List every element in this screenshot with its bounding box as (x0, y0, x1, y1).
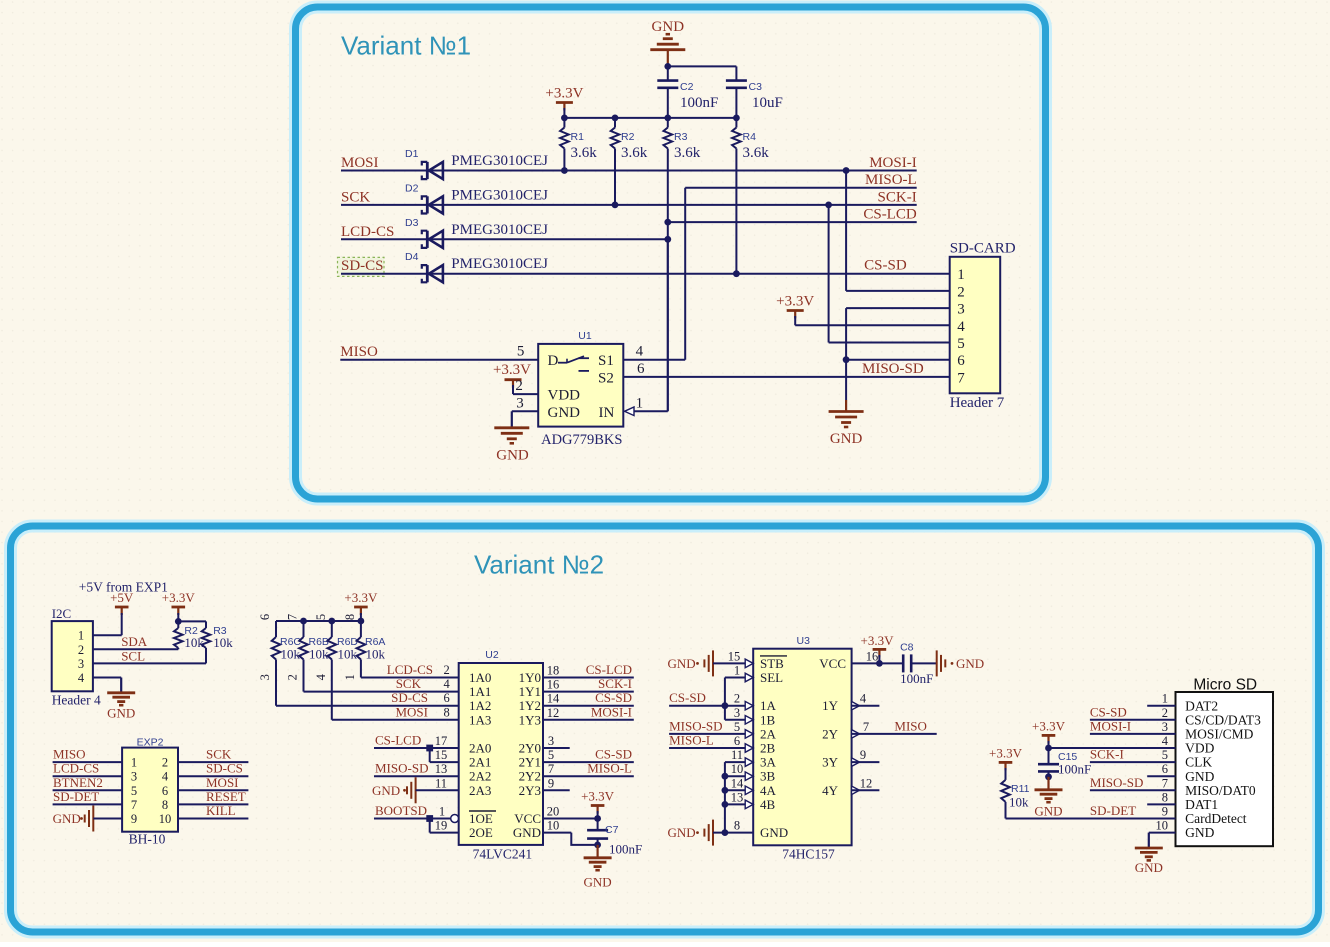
junction (561, 115, 568, 122)
svg-text:7: 7 (131, 798, 137, 812)
svg-text:VDD: VDD (1185, 741, 1214, 756)
power +3.3V (R6 bank) (354, 606, 368, 609)
svg-text:R3: R3 (674, 131, 688, 143)
svg-text:16: 16 (547, 678, 560, 692)
svg-text:VDD: VDD (548, 388, 581, 404)
svg-text:11: 11 (435, 776, 447, 790)
svg-text:2Y3: 2Y3 (519, 783, 541, 798)
svg-text:2A2: 2A2 (469, 769, 491, 784)
svg-text:MISO-L: MISO-L (587, 761, 632, 776)
svg-text:5: 5 (1162, 748, 1168, 762)
svg-text:CS-LCD: CS-LCD (863, 207, 917, 223)
ground GND (C7) (584, 856, 612, 859)
svg-text:10k: 10k (366, 647, 386, 662)
wire EXP2 pin7 (53, 803, 123, 805)
svg-text:+3.3V: +3.3V (545, 86, 583, 102)
svg-text:LCD-CS: LCD-CS (53, 761, 99, 776)
svg-text:10k: 10k (309, 647, 329, 662)
resistor R6A 10k (360, 621, 362, 637)
svg-text:10k: 10k (338, 647, 358, 662)
svg-text:+3.3V: +3.3V (344, 590, 378, 605)
svg-text:MISO: MISO (894, 718, 927, 733)
svg-text:10: 10 (1156, 819, 1169, 833)
wire SD-CS row to SD-CARD pin1 (341, 273, 950, 275)
svg-text:D4: D4 (405, 251, 419, 263)
wire U2 pin11 (416, 789, 459, 791)
svg-text:1Y3: 1Y3 (519, 712, 541, 727)
junction (1045, 745, 1052, 752)
svg-text:MOSI: MOSI (341, 155, 379, 171)
svg-text:3: 3 (734, 706, 740, 720)
op-amp U1 ADG779BKS body (538, 344, 623, 427)
junction (426, 815, 433, 822)
junction (594, 842, 601, 849)
svg-text:2B: 2B (760, 741, 776, 756)
diode D4 (429, 265, 443, 282)
wire EXP2 pin2 (178, 761, 248, 763)
svg-text:GND: GND (513, 825, 541, 840)
wire SCK vertical to SD pin5 (828, 205, 830, 343)
svg-text:GND: GND (584, 875, 612, 890)
svg-text:GND: GND (107, 706, 135, 721)
junction (664, 219, 671, 226)
diode D1 (429, 162, 443, 179)
svg-text:SD-CS: SD-CS (341, 258, 384, 274)
svg-text:15: 15 (435, 748, 448, 762)
wire U2 pin9 stub (543, 789, 570, 791)
svg-text:MISO-SD: MISO-SD (1090, 775, 1143, 790)
svg-text:PMEG3010CEJ: PMEG3010CEJ (451, 153, 548, 169)
wire SD pin3 gnd branch (846, 307, 950, 309)
svg-text:3: 3 (548, 734, 554, 748)
svg-text:6: 6 (258, 614, 272, 620)
resistor R11 10k (1005, 768, 1007, 780)
svg-text:1Y: 1Y (822, 698, 839, 713)
wire MISO-L row (685, 187, 917, 189)
wire SD pin6 branch (846, 359, 950, 361)
svg-text:LCD-CS: LCD-CS (387, 662, 433, 677)
svg-text:CardDetect: CardDetect (1185, 811, 1247, 826)
svg-text:+3.3V: +3.3V (861, 633, 895, 648)
wire U2 pin16 SCK-I (543, 691, 634, 693)
svg-text:U1: U1 (578, 330, 592, 342)
svg-text:CS-SD: CS-SD (595, 690, 632, 705)
svg-text:S2: S2 (598, 370, 614, 386)
svg-text:U3: U3 (797, 635, 811, 647)
wire U3 pin8 GND (713, 832, 753, 834)
wire LCD-CS row (341, 238, 668, 240)
wire +3.3V rail (564, 117, 736, 119)
svg-text:9: 9 (860, 748, 866, 762)
wire +3.3V to SD pin4 (794, 316, 796, 325)
svg-text:+3.3V: +3.3V (1032, 718, 1066, 733)
svg-text:9: 9 (131, 812, 137, 826)
svg-text:10: 10 (547, 819, 560, 833)
svg-text:GND: GND (1185, 825, 1214, 840)
wire EXP2 pin9 (93, 818, 122, 820)
wire EXP2 pin5 (53, 789, 123, 791)
bubble U2 pin1 (451, 815, 459, 823)
wire U3 2Y MISO (852, 733, 937, 735)
wire EXP2 pin1 (53, 761, 123, 763)
svg-text:3A: 3A (760, 755, 777, 770)
svg-text:100nF: 100nF (1058, 762, 1091, 777)
svg-text:MOSI/CMD: MOSI/CMD (1185, 727, 1254, 742)
svg-text:MISO: MISO (53, 747, 86, 762)
svg-text:S1: S1 (598, 353, 614, 369)
capacitor C2 (667, 66, 669, 80)
svg-text:BH-10: BH-10 (129, 832, 166, 847)
svg-text:BOOTSD: BOOTSD (375, 803, 427, 818)
svg-text:C8: C8 (900, 642, 914, 654)
svg-text:1A1: 1A1 (469, 684, 491, 699)
wire MISO-SD to U2 pin13 (374, 775, 459, 777)
capacitor C8 (902, 654, 905, 672)
resistor R6D 10k (331, 621, 333, 637)
svg-text:2: 2 (444, 663, 450, 677)
svg-text:8: 8 (162, 798, 168, 812)
svg-text:STB: STB (760, 656, 784, 671)
svg-text:2A3: 2A3 (469, 783, 491, 798)
resistor R2 10k (177, 621, 179, 628)
svg-text:3: 3 (258, 674, 272, 680)
resistor R2 (614, 118, 616, 128)
wire CS-SD to uSD pin2 (1090, 719, 1176, 721)
wire U2 pin5 CS-SD (543, 761, 634, 763)
svg-text:2: 2 (162, 756, 168, 770)
wire +3.3V stem (563, 108, 565, 118)
svg-text:4Y: 4Y (822, 783, 839, 798)
svg-text:100nF: 100nF (900, 671, 933, 686)
svg-text:1: 1 (1162, 692, 1168, 706)
svg-text:1OE: 1OE (469, 811, 493, 826)
power +3.3V (U3) (873, 648, 887, 651)
svg-text:3.6k: 3.6k (674, 145, 701, 161)
input arrow IN (625, 407, 635, 416)
svg-text:2: 2 (1162, 706, 1168, 720)
wire MISO-L to U3 2B (669, 747, 745, 749)
svg-text:D2: D2 (405, 182, 419, 194)
wire uSD pin8 stub (1147, 803, 1175, 805)
svg-text:1: 1 (131, 756, 137, 770)
wire U3 pin16 VCC (852, 662, 904, 664)
svg-text:1A0: 1A0 (469, 670, 491, 685)
svg-text:R2: R2 (621, 131, 635, 143)
svg-text:4B: 4B (760, 797, 776, 812)
svg-text:3: 3 (131, 770, 137, 784)
svg-text:10k: 10k (213, 635, 233, 650)
power +3.3V (top box) (556, 101, 573, 104)
wire U3 4Y stub (852, 789, 880, 791)
svg-text:4: 4 (78, 671, 85, 685)
svg-text:5: 5 (548, 748, 554, 762)
svg-text:R11: R11 (1011, 783, 1030, 795)
svg-text:10k: 10k (1009, 795, 1029, 810)
wire VDD to uSD pin4 (1049, 747, 1176, 749)
wire U2 pin10 GND (543, 832, 571, 834)
ground GND (I2C) (107, 691, 135, 694)
wire R6B to U2 pin4 (304, 691, 459, 693)
wire gnd stem (C15) (1047, 777, 1049, 790)
wire U2 pin14 CS-SD (543, 705, 634, 707)
svg-text:3B: 3B (760, 769, 776, 784)
svg-text:+3.3V: +3.3V (581, 789, 615, 804)
svg-text:4: 4 (162, 770, 169, 784)
svg-text:MOSI-I: MOSI-I (591, 704, 632, 719)
svg-text:D: D (548, 353, 559, 369)
svg-text:SCK-I: SCK-I (878, 189, 917, 205)
svg-text:SCK: SCK (206, 747, 232, 762)
svg-text:10uF: 10uF (752, 95, 783, 111)
resistor R6C 10k (275, 621, 277, 637)
wire U2 pin7 MISO-L (543, 775, 634, 777)
svg-text:4: 4 (444, 677, 451, 691)
svg-text:SCK-I: SCK-I (1090, 747, 1124, 762)
wire EXP2 pin4 (178, 775, 248, 777)
wire SCL (93, 662, 206, 664)
wire U2 pin20 VCC (543, 818, 598, 820)
wire VDD (512, 385, 514, 394)
buffer U2 74LVC241 body (459, 663, 543, 845)
svg-text:6: 6 (1162, 762, 1168, 776)
svg-text:6: 6 (444, 691, 450, 705)
wire cap top rail (668, 65, 737, 67)
svg-text:2: 2 (286, 674, 300, 680)
junction (175, 618, 182, 625)
svg-text:2A: 2A (760, 726, 777, 741)
svg-text:KILL: KILL (206, 803, 236, 818)
junction (843, 356, 850, 363)
svg-text:SD-DET: SD-DET (53, 789, 99, 804)
junction (722, 702, 729, 709)
svg-text:14: 14 (731, 776, 744, 790)
svg-text:7: 7 (863, 720, 869, 734)
junction (300, 618, 307, 625)
svg-text:7: 7 (957, 370, 965, 386)
svg-text:2: 2 (734, 692, 740, 706)
svg-text:1: 1 (78, 629, 84, 643)
svg-text:16: 16 (866, 649, 879, 663)
capacitor C3 (735, 66, 737, 80)
svg-text:GND: GND (1185, 769, 1214, 784)
svg-text:3.6k: 3.6k (743, 145, 770, 161)
svg-text:3.6k: 3.6k (571, 145, 598, 161)
wire SCK-I to uSD pin5 (1090, 761, 1176, 763)
wire R6D to U2 pin8 (332, 719, 459, 721)
svg-text:BTNEN2: BTNEN2 (53, 775, 103, 790)
svg-text:D1: D1 (405, 148, 419, 160)
power +3.3V (C7) (591, 804, 605, 807)
svg-text:12: 12 (860, 776, 873, 790)
wire U2 pin3 stub (543, 747, 570, 749)
wire SD-DET to uSD pin9 (1006, 818, 1176, 820)
svg-text:CS-SD: CS-SD (1090, 704, 1127, 719)
svg-text:15: 15 (728, 649, 741, 663)
wire branch to pin15 (429, 748, 431, 762)
power +5V (115, 606, 129, 609)
svg-text:14: 14 (547, 692, 560, 706)
svg-text:C7: C7 (605, 824, 619, 836)
resistor R3 (667, 118, 669, 128)
svg-text:7: 7 (1162, 776, 1168, 790)
wire MISO-L vertical to U1 S1 (684, 188, 686, 360)
svg-text:9: 9 (548, 776, 554, 790)
svg-text:2Y1: 2Y1 (519, 755, 541, 770)
svg-text:6: 6 (957, 353, 965, 369)
power +3.3V (SD card) (787, 309, 804, 312)
svg-text:SCK: SCK (341, 189, 370, 205)
svg-text:DAT2: DAT2 (1185, 698, 1218, 713)
svg-text:MISO: MISO (340, 344, 378, 360)
wire EXP2 pin10 (178, 818, 248, 820)
svg-text:RESET: RESET (206, 789, 246, 804)
svg-text:3: 3 (957, 302, 965, 318)
svg-text:1B: 1B (760, 712, 776, 727)
svg-text:PMEG3010CEJ: PMEG3010CEJ (451, 256, 548, 272)
svg-text:3: 3 (78, 657, 84, 671)
svg-text:Header 7: Header 7 (950, 395, 1005, 411)
svg-text:ADG779BKS: ADG779BKS (541, 432, 622, 448)
svg-text:GND: GND (668, 825, 696, 840)
svg-text:PMEG3010CEJ: PMEG3010CEJ (451, 187, 548, 203)
resistor R4 (735, 118, 737, 128)
svg-text:10k: 10k (281, 647, 301, 662)
wire gnd bus vertical (724, 762, 726, 833)
svg-text:GND: GND (548, 405, 581, 421)
capacitor C7 (597, 819, 599, 831)
svg-text:+3.3V: +3.3V (989, 745, 1023, 760)
svg-text:20: 20 (547, 805, 560, 819)
wire MISO-SD to U3 2A (669, 733, 745, 735)
junction (426, 745, 433, 752)
input arrows U3 left (745, 659, 753, 668)
svg-text:6: 6 (637, 361, 645, 377)
svg-text:CS-SD: CS-SD (864, 258, 907, 274)
svg-text:1A: 1A (760, 698, 777, 713)
svg-text:MISO-L: MISO-L (865, 172, 917, 188)
svg-text:GND: GND (668, 656, 696, 671)
power +3.3V (C15) (1042, 734, 1056, 737)
svg-text:1Y1: 1Y1 (519, 684, 541, 699)
svg-text:4: 4 (860, 692, 867, 706)
svg-text:8: 8 (734, 819, 740, 833)
wire C8 to gnd (911, 662, 937, 664)
svg-text:8: 8 (444, 705, 450, 719)
svg-text:2Y2: 2Y2 (519, 769, 541, 784)
svg-text:6: 6 (734, 734, 740, 748)
svg-text:DAT1: DAT1 (1185, 797, 1218, 812)
svg-text:1Y2: 1Y2 (519, 698, 541, 713)
svg-text:10: 10 (731, 762, 744, 776)
svg-text:1: 1 (343, 674, 357, 680)
svg-text:3: 3 (516, 395, 524, 411)
wire MISO-SD row U1 S2 to SD pin7 (623, 376, 949, 378)
svg-text:GND: GND (53, 811, 81, 826)
wire U3 1Y stub (852, 705, 880, 707)
svg-text:74LVC241: 74LVC241 (473, 847, 533, 862)
svg-text:D3: D3 (405, 217, 419, 229)
wire U3 pin1 SEL (725, 677, 746, 679)
resistor R6B 10k (303, 621, 305, 637)
svg-text:SCL: SCL (121, 648, 145, 663)
svg-text:LCD-CS: LCD-CS (341, 224, 394, 240)
svg-text:GND: GND (1135, 860, 1163, 875)
wire +5V to I2C pin1 (121, 613, 123, 635)
junction (1045, 773, 1052, 780)
svg-text:1: 1 (439, 805, 445, 819)
wire pullup rail (178, 620, 206, 622)
wire BOOTSD to U2 pin1 (374, 818, 451, 820)
svg-text:2Y: 2Y (822, 726, 839, 741)
switch symbol inside U1 (558, 362, 567, 364)
wire R6 rail (276, 620, 361, 622)
wire R6C to U2 pin6 (276, 705, 459, 707)
svg-text:IN: IN (599, 405, 615, 421)
svg-text:2: 2 (515, 378, 523, 394)
svg-text:13: 13 (435, 762, 448, 776)
svg-text:Variant №2: Variant №2 (474, 550, 604, 580)
svg-text:13: 13 (731, 790, 744, 804)
frame box Variant 2 (11, 526, 1319, 932)
junction (722, 773, 729, 780)
junction (733, 270, 740, 277)
diode D3 (429, 231, 443, 248)
svg-text:SD-DET: SD-DET (1090, 803, 1136, 818)
junction (664, 236, 671, 243)
diode D2 (429, 196, 443, 213)
svg-text:CS-LCD: CS-LCD (375, 733, 421, 748)
wire GND stem (667, 50, 669, 67)
node SD-CS (338, 257, 385, 276)
wire EXP2 pin8 (178, 803, 248, 805)
wire U1 IN pin1 (634, 410, 668, 412)
wire I2C pin4 to gnd (93, 677, 121, 679)
svg-text:1: 1 (734, 664, 740, 678)
svg-text:VCC: VCC (514, 811, 541, 826)
svg-text:SCK-I: SCK-I (598, 676, 632, 691)
svg-text:3.6k: 3.6k (621, 145, 648, 161)
svg-text:100nF: 100nF (609, 842, 642, 857)
junction (594, 815, 601, 822)
svg-text:VCC: VCC (819, 656, 846, 671)
svg-text:11: 11 (731, 748, 743, 762)
svg-text:CS-SD: CS-SD (595, 747, 632, 762)
wire gnd stem (845, 400, 847, 412)
svg-text:19: 19 (435, 819, 448, 833)
svg-text:1: 1 (957, 267, 965, 283)
wire U3 3A (725, 761, 746, 763)
power +3.3V (I2C pullups) (172, 606, 186, 609)
wire R6A to U2 pin2 (361, 677, 459, 679)
wire MISO-SD to uSD pin7 (1090, 789, 1176, 791)
svg-text:GND: GND (496, 448, 529, 464)
svg-text:MISO-SD: MISO-SD (375, 761, 428, 776)
wire U2 pin18 CS-LCD (543, 677, 634, 679)
wire uSD pin10 gnd (1149, 832, 1176, 834)
svg-text:8: 8 (343, 614, 357, 620)
svg-text:3: 3 (1162, 720, 1168, 734)
svg-text:Micro SD: Micro SD (1193, 677, 1257, 694)
ground GND (C8) (936, 650, 938, 676)
svg-text:GND: GND (830, 431, 863, 447)
svg-text:4: 4 (1162, 734, 1169, 748)
svg-text:CLK: CLK (1185, 755, 1212, 770)
power +3.3V (R11) (999, 761, 1013, 764)
svg-text:SD-CS: SD-CS (206, 761, 243, 776)
ground GND (C15) (1035, 788, 1063, 791)
wire CS-LCD row (668, 221, 917, 223)
svg-text:R1: R1 (571, 131, 585, 143)
